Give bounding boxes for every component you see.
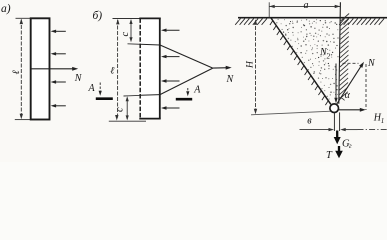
svg-text:ℓ: ℓ	[11, 70, 22, 74]
svg-text:г: г	[349, 142, 352, 150]
svg-text:N: N	[226, 74, 235, 85]
svg-text:N: N	[367, 58, 376, 69]
svg-text:2: 2	[327, 53, 331, 61]
svg-text:N: N	[74, 73, 83, 84]
svg-text:б): б)	[93, 10, 103, 22]
svg-text:A: A	[193, 85, 201, 96]
svg-text:A: A	[88, 83, 96, 94]
svg-text:H: H	[245, 60, 255, 69]
svg-text:α: α	[345, 90, 351, 101]
svg-text:ℓ: ℓ	[110, 66, 114, 77]
svg-text:c: c	[120, 32, 131, 37]
svg-text:а): а)	[1, 3, 11, 15]
svg-text:а: а	[304, 0, 309, 11]
svg-text:c: c	[115, 107, 126, 112]
svg-text:1: 1	[381, 117, 385, 125]
svg-text:в: в	[307, 116, 312, 127]
